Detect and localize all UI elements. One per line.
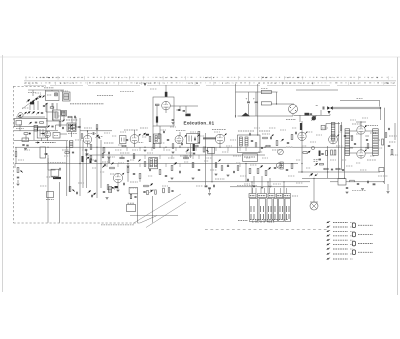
tube B8 (329, 135, 338, 144)
arrow A7 (72, 189, 74, 191)
det res c (331, 150, 333, 155)
pot arrow P3 (37, 112, 39, 114)
tube socket bank rects (250, 199, 258, 222)
resistor R10 (103, 148, 105, 153)
jack slash (290, 106, 297, 113)
mid low arr1 (219, 159, 221, 161)
choke L18 (261, 102, 271, 105)
parts list row 2 dark cluster b (136, 83, 138, 84)
lamp feed dark arrow (310, 173, 313, 176)
dial lamp circle (310, 202, 318, 210)
bus wire bottom AF (168, 181, 310, 183)
tube B10 output lower (357, 150, 365, 158)
svg-text:Exécution_01: Exécution_01 (184, 121, 215, 126)
det arrow mid (315, 163, 318, 165)
mid area label specks 1 (158, 142, 165, 144)
mid low gnd1 (215, 173, 218, 175)
trimmer stack cap (71, 127, 73, 129)
wire vertical x83 (82, 140, 84, 188)
det label2 (314, 160, 319, 162)
fm trimmer dark (312, 116, 316, 120)
b7 label (176, 130, 186, 132)
det dark res (319, 151, 321, 157)
chassis dashed boundary bottom right (205, 229, 327, 231)
box left of B5 (120, 136, 127, 144)
parts list row 1 ticks (25, 76, 27, 79)
capacitor C11 (78, 126, 80, 128)
parts list row 1 extra clusters (69, 77, 72, 78)
label can (238, 130, 254, 132)
cap below det box (193, 152, 195, 154)
wire b1 top to can (55, 125, 57, 130)
box left inner tick (121, 138, 123, 142)
row3 cap (35, 121, 37, 123)
capacitor C23 (126, 139, 128, 141)
bus y117 (16, 116, 45, 118)
arrow A15 (260, 165, 263, 167)
resistor R29 (291, 135, 293, 140)
label output (365, 125, 378, 127)
mid strip cap (72, 151, 74, 153)
dark bar right of B5 (146, 134, 149, 136)
label accord (259, 130, 270, 132)
wire b6 stub (219, 144, 221, 147)
resistor R26 (255, 143, 257, 148)
lamp cross (311, 203, 317, 209)
if strip label1 (68, 133, 77, 135)
pot arrow P1 (28, 111, 31, 113)
if strip arr (63, 119, 65, 121)
tube B5 (130, 135, 139, 144)
small box u (321, 125, 325, 129)
if strip cap (62, 127, 64, 129)
IF can box 1 (67, 123, 76, 132)
b3 label2 (130, 181, 138, 183)
capacitor C21 (183, 109, 185, 111)
parts list bottom rule segments (24, 85, 46, 87)
label tuner (70, 103, 104, 105)
wire vertical x80 (79, 118, 81, 196)
resistor R33 (291, 164, 293, 169)
resistor R41 (350, 180, 355, 182)
osc box internals (39, 129, 41, 137)
tube B3 AF (113, 173, 122, 182)
capacitor C14 (108, 152, 110, 154)
resistor R18 (192, 163, 194, 168)
coil in box L2 (64, 94, 69, 100)
wire bank drop a (251, 182, 253, 194)
wire down b6 (209, 188, 211, 193)
parts list row 1 text (25, 77, 27, 78)
cathode resistor R20 dark (156, 116, 158, 122)
ground G11 (269, 185, 272, 187)
tuner small res (50, 107, 54, 108)
trimmer slash (278, 150, 283, 155)
arrow A16 (268, 167, 271, 169)
gang arrow (19, 114, 22, 116)
bank side label (292, 195, 298, 197)
elcap E1 (247, 100, 250, 102)
capacitor C19 (198, 169, 200, 171)
resistor R12 (127, 168, 129, 173)
mid low gnd2 (227, 174, 230, 176)
coil L14 (240, 137, 243, 146)
resistor R16 (171, 166, 173, 171)
center extra res c (133, 154, 135, 159)
label row u1 (120, 91, 134, 93)
left box b6 (198, 131, 200, 142)
mid low label (215, 178, 225, 180)
wire b1 right (60, 133, 67, 135)
capacitor C30 (247, 179, 249, 181)
IF coil right (331, 123, 335, 141)
capacitor C15 (133, 173, 135, 175)
det row y168 c (336, 168, 340, 170)
arrow pot b6 (206, 150, 208, 152)
resistor R28 (276, 141, 278, 146)
wire vertical x59 (58, 182, 60, 223)
det res d (334, 150, 336, 155)
wire b4 inner (156, 104, 158, 116)
resistor R39 right (382, 139, 384, 145)
wire vertical x86 (86, 150, 88, 188)
left gnd (24, 147, 27, 149)
b5 gnd (144, 149, 147, 151)
extra junction dots (47, 147, 48, 148)
resistor R5 dark (53, 177, 61, 179)
wire b4 screen drop (159, 126, 161, 147)
out tube wires (360, 134, 362, 150)
bus y121 extend (46, 120, 64, 122)
jack contacts (290, 107, 291, 108)
grid resistor R20a (155, 104, 159, 105)
small box feedback (127, 205, 136, 212)
wire vertical x48 (47, 155, 49, 223)
vertical stubs from bus y155 (108, 155, 110, 159)
output section vertical b (341, 122, 343, 170)
center extra res b (120, 157, 124, 159)
capacitor C36 (344, 135, 346, 137)
tuner stub wires (45, 103, 47, 112)
label 12pct (139, 142, 144, 144)
arrow B5 (139, 134, 141, 136)
IF box right of B5 (154, 134, 162, 144)
mid low cluster cap1 (227, 165, 229, 167)
label drv (104, 142, 114, 144)
right of b5 cap (163, 131, 165, 133)
det vertical x327 (327, 146, 329, 178)
ground G8 (208, 193, 211, 195)
pot arrow P2 (32, 111, 35, 113)
dark cluster right (150, 190, 153, 192)
dark cluster x88 (87, 157, 90, 159)
inner box in dial box (16, 121, 22, 126)
bus wire AVC line (15, 163, 298, 165)
center label b (120, 152, 130, 154)
b3 labels (110, 173, 117, 175)
elcap E5 dark (185, 114, 190, 117)
wire box drop (137, 194, 139, 223)
tiny marks bus (237, 185, 257, 187)
trimmer stack wire (71, 117, 73, 123)
speck labels strip (104, 132, 110, 134)
strip label3 (96, 136, 103, 138)
center label c (102, 161, 109, 163)
det row y168 a (324, 168, 328, 170)
out res mid (367, 144, 369, 149)
out stage res a (351, 136, 353, 141)
arrow B8 (337, 134, 339, 136)
resistor R14 (144, 185, 149, 187)
junction dot y131 (87, 130, 88, 131)
label mid (48, 162, 66, 164)
resistor R30 (249, 169, 251, 174)
label LATL (88, 133, 96, 135)
out stage cap a (354, 143, 356, 145)
capacitor C27 (270, 137, 272, 139)
det row y168 b (331, 168, 333, 170)
label B4a (87, 143, 91, 145)
right margin label3 (390, 154, 398, 156)
bus wire heater line (85, 154, 265, 156)
label in box (54, 135, 59, 137)
capacitor C25 (167, 139, 169, 141)
right page edge (397, 57, 399, 295)
capacitor C32 (286, 169, 288, 171)
wire low right (330, 181, 338, 183)
right margin label2 (389, 141, 396, 143)
coil marks in box L1 (55, 93, 58, 96)
coil L9 (109, 187, 112, 193)
wire elcaps (248, 92, 250, 101)
chassis boundary fold diagonal (140, 216, 157, 224)
filter bottom rail (238, 115, 286, 117)
FM det box right of B7 (187, 134, 200, 144)
plate resistor R19 dark (165, 92, 168, 97)
resistor R31 (257, 169, 259, 174)
arrow A14 (282, 139, 284, 141)
det box arrow (194, 139, 196, 142)
wire b2 verticals (87, 130, 89, 135)
det res mid (320, 163, 324, 165)
label top right (357, 98, 363, 100)
coil box right (61, 111, 67, 117)
b2 gnd (86, 153, 89, 155)
bottom bus labels2 (273, 183, 281, 185)
tuner extra arrow a (43, 95, 45, 97)
tube B9 output upper (357, 126, 365, 134)
schema label (43, 142, 56, 144)
resistor R25 (172, 144, 174, 149)
bus wire bank feed (230, 186, 308, 188)
det arrow a (308, 151, 311, 153)
wire s1 (47, 158, 49, 170)
osc box (37, 128, 46, 139)
osc arrow top (48, 125, 50, 127)
right can label (262, 133, 270, 135)
capacitor C12 (92, 132, 94, 134)
IF can big box (238, 135, 261, 153)
twin lead wires (333, 106, 381, 108)
right can extra res (266, 145, 270, 147)
filter top rail (236, 91, 278, 93)
left res row (24, 133, 28, 135)
mid strip label (62, 149, 70, 151)
lamp leads (310, 201, 318, 203)
wire antenna drop b (384, 108, 386, 125)
fb res right (385, 133, 387, 138)
output trafo coil B (373, 129, 379, 156)
arrow B6 (225, 133, 227, 135)
parts below box (130, 194, 132, 198)
wire vertical x302 (301, 121, 303, 172)
b2 cap (85, 149, 87, 151)
trimmer gang diagonal (22, 95, 41, 110)
center extra arr a (112, 162, 114, 164)
svg-text:1 51 5 3 4E53: 1 51 5 3 4E53 (252, 220, 275, 224)
mid low cluster res1 (215, 163, 217, 168)
trimmer arrow T1 (27, 99, 30, 102)
label in box L1 (47, 94, 52, 96)
arrow B3 (122, 173, 124, 175)
dark double arrow right of B2 (96, 135, 99, 137)
det res b (326, 151, 328, 156)
fm input dark cluster (305, 113, 310, 116)
trimmer arrow T3 (35, 98, 38, 101)
left small box (22, 138, 29, 142)
capacitor C10 (103, 191, 105, 193)
AM antenna coil box L1 (46, 91, 60, 101)
capacitor C17 (165, 175, 167, 177)
b3 cathode pot (107, 185, 109, 190)
det row y168 d (342, 169, 344, 171)
center label a (107, 156, 115, 158)
resistor R24 (153, 144, 155, 149)
wire vertical x384 (384, 125, 386, 184)
center extra arr c (103, 165, 105, 167)
b3 dark mark (115, 186, 118, 188)
wire osc drops (19, 124, 21, 131)
parts list row 2 ticks (29, 82, 31, 85)
arrow B1 (42, 133, 44, 135)
wire b4 right (170, 105, 198, 107)
left dark blob (29, 133, 31, 135)
driver trafo coil A (345, 129, 350, 156)
osc arrow bottom (37, 142, 40, 144)
resistor R15 (159, 170, 161, 175)
label b5 (124, 129, 138, 131)
trimmer slash 2 (277, 163, 281, 167)
coil L11 (73, 124, 76, 130)
det cap a (321, 153, 323, 155)
pot arrow R6 (20, 170, 22, 172)
right can extra cap (261, 147, 263, 149)
capacitor C37 (388, 145, 390, 147)
resistor R36 dark (300, 123, 302, 130)
capacitor C41 (213, 185, 215, 187)
wire vertical x258 (257, 84, 259, 135)
chassis boundary fold horizontal (130, 215, 178, 217)
wire ferrite drop (63, 112, 65, 122)
center extra res e (102, 153, 104, 158)
tube B11 FM mixer (298, 132, 306, 140)
socket bottom labels (250, 219, 288, 221)
coil L12 (150, 159, 153, 167)
bus y130.8 (14, 130, 58, 132)
wire left pot (14, 164, 16, 169)
resistor R38 (340, 126, 342, 131)
mid low res3 (237, 166, 239, 171)
wire vertical x212 (211, 147, 213, 182)
osc cap top (51, 125, 53, 127)
bus wire right lower (298, 171, 380, 173)
socket inner ticks (250, 206, 252, 212)
trimmer stack arrow (70, 124, 73, 126)
arrow A4 (46, 153, 48, 155)
wire out top (350, 130, 357, 132)
choke L17 (261, 90, 271, 93)
coupling box (40, 147, 46, 158)
ground G3 (106, 197, 109, 199)
det small circle (311, 146, 314, 149)
wire y131 left (80, 130, 112, 132)
top line right (340, 99, 380, 101)
dark resistor x82 (82, 156, 84, 162)
b5 label (140, 127, 148, 129)
heavy line into b6 (203, 137, 216, 139)
wire tuner top drops (32, 90, 34, 96)
out stage label (352, 123, 361, 125)
vert res far (163, 188, 165, 193)
chassis dashed boundary top (14, 85, 47, 87)
wire det box drop (190, 144, 192, 158)
legend arrow rows (326, 221, 329, 223)
ground G9 (253, 185, 256, 187)
right low bus (302, 177, 345, 179)
minus mark (316, 105, 318, 107)
pot left b6 (203, 147, 205, 152)
arrow can (249, 132, 251, 134)
dial cord diagonal 1 (133, 194, 181, 224)
mid y190 parts right (143, 191, 145, 193)
ground G4 (117, 189, 120, 191)
screen box around B4 (153, 97, 174, 126)
capacitor C28 (287, 142, 289, 144)
tiny text bottom (101, 224, 134, 226)
capacitor C29 (295, 132, 297, 134)
capacitor C22 (172, 119, 174, 121)
chassis dashed boundary bottom (14, 222, 141, 224)
filter right vertical (276, 92, 278, 104)
IF can lower box (243, 154, 258, 162)
det vertical x344 (344, 147, 346, 178)
label s2 (46, 199, 54, 201)
box mid y190 (129, 188, 137, 194)
wire grid taps (350, 135, 353, 137)
bus wire HT line (15, 146, 378, 148)
right margin label1 (389, 135, 397, 137)
tube B1 converter (44, 131, 50, 137)
ground G14 (387, 191, 390, 193)
arrow B7 (185, 135, 187, 137)
mid low cluster res2 (221, 166, 223, 171)
dark blob trimmer (30, 102, 34, 105)
choke label (261, 88, 268, 90)
pickup jack circle (289, 105, 298, 114)
coil box center (149, 158, 158, 169)
label s1 (47, 176, 56, 178)
switch box S2 (47, 192, 54, 198)
